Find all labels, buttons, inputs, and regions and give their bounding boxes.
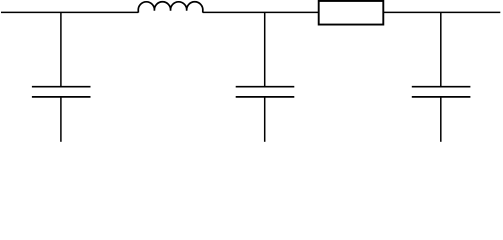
wire: top bus, input lead to inductor [1,11,138,13]
wire: top bus, inductor to resistor [203,11,319,13]
wire: C2 top lead [264,12,266,86]
capacitor C3 [412,87,471,97]
wire: C3 top lead [440,12,442,86]
capacitor C1 [32,87,91,97]
wire: top bus, resistor to output [383,11,500,13]
inductor L1 [138,2,203,13]
capacitor C2 [236,87,295,97]
wire: C1 bottom lead [60,97,62,142]
wire: C3 bottom lead [440,97,442,142]
resistor R1 (box symbol) [319,1,384,25]
wire: C2 bottom lead [264,97,266,142]
wire: C1 top lead [60,12,62,86]
